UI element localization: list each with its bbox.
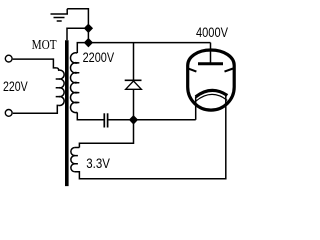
diode D1 (133, 43, 135, 81)
wire secondary to capacitor (77, 112, 103, 119)
primary winding 220V (57, 68, 65, 106)
ground (51, 9, 69, 21)
wire node A to node B (87, 28, 89, 42)
tube plate (198, 62, 223, 65)
node A junction dot (85, 25, 92, 32)
node C junction dot (130, 116, 137, 123)
tube cathode arc thick (196, 90, 228, 96)
wire diode to node C (133, 89, 135, 120)
wire primary to J2 (13, 105, 59, 113)
svg-text:4000V: 4000V (196, 25, 228, 41)
svg-text:2200V: 2200V (83, 50, 115, 66)
transformer T1 core (65, 40, 69, 186)
tube right grid tick (225, 69, 234, 72)
wire J1 to primary (13, 59, 57, 68)
svg-text:MOT: MOT (32, 37, 58, 52)
tube plate lead (210, 43, 212, 64)
secondary winding 2200V (77, 43, 88, 53)
node B junction dot (85, 39, 92, 46)
svg-text:220V: 220V (3, 79, 28, 95)
tube cathode arc thin (196, 94, 228, 101)
wire node C to filament winding (79, 120, 133, 148)
filament winding 3.3V (75, 147, 80, 149)
tube cathode lead (195, 97, 197, 120)
wire filament winding to tube heater (75, 96, 226, 179)
wire ground to node A (67, 9, 88, 29)
wire node A to core top (67, 28, 88, 40)
terminal J2 (5, 110, 12, 117)
wire top rail 2200V node B to plate (88, 42, 210, 44)
svg-text:3.3V: 3.3V (86, 156, 110, 172)
terminal J1 (5, 55, 12, 62)
wire node C to tube cathode lead (134, 119, 196, 121)
tube left grid tick (188, 68, 196, 71)
capacitor C1 (103, 113, 105, 127)
wire capacitor to node C (108, 119, 133, 121)
tube V1 envelope (188, 50, 235, 110)
